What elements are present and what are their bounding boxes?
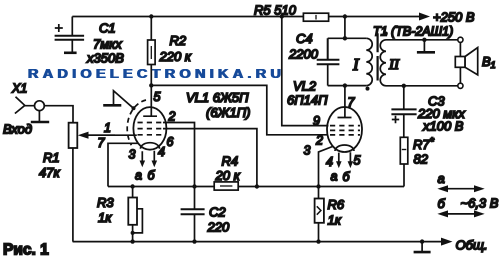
svg-text:х350В: х350В xyxy=(86,51,124,66)
tube VL2 heater pins 4,5 xyxy=(326,152,361,184)
svg-text:II: II xyxy=(388,57,400,73)
node VL1 anode xyxy=(149,83,153,87)
wire screen feed to VL2 pin 9 xyxy=(282,17,329,126)
wire VL1 pin 2 to cathode rail and C2 xyxy=(163,123,195,210)
speaker B1 xyxy=(455,37,495,88)
svg-text:I: I xyxy=(352,55,360,74)
svg-text:R7*: R7* xyxy=(413,136,435,152)
transformer T1 primary winding I xyxy=(328,17,373,91)
svg-text:5: 5 xyxy=(154,90,161,104)
svg-text:7: 7 xyxy=(98,136,106,150)
tube VL1 grids xyxy=(138,123,164,135)
node primary bottom xyxy=(343,83,347,87)
node VL2 cathode xyxy=(316,184,320,188)
svg-text:82: 82 xyxy=(414,152,429,167)
node R3 bottom xyxy=(130,239,134,243)
resistor R6 xyxy=(315,187,345,242)
node C3 top xyxy=(402,84,406,88)
svg-text:1: 1 xyxy=(104,121,111,135)
svg-text:а: а xyxy=(438,171,445,186)
svg-text:Рис. 1: Рис. 1 xyxy=(3,242,49,258)
node C2 bottom xyxy=(192,239,196,243)
chassis ground at secondary xyxy=(423,40,425,52)
svg-text:1к: 1к xyxy=(98,210,112,225)
svg-text:2200: 2200 xyxy=(288,47,319,62)
wire VL2 cathode pin 3 xyxy=(319,147,333,187)
svg-text:х100 В: х100 В xyxy=(422,119,464,134)
watermark radioelectronika.ru xyxy=(28,67,285,82)
svg-text:Вход: Вход xyxy=(3,122,32,137)
svg-text:б: б xyxy=(343,170,351,184)
svg-text:а: а xyxy=(135,169,142,183)
svg-text:Т1 (ТВ-2АШ1): Т1 (ТВ-2АШ1) xyxy=(373,25,453,39)
wire top supply rail right of R5 to +250V arrow xyxy=(329,16,420,18)
svg-text:С4: С4 xyxy=(296,31,313,46)
shield connection dot xyxy=(132,106,136,110)
chassis ground at X1 xyxy=(38,111,40,122)
svg-text:Общ.: Общ. xyxy=(456,238,488,253)
resistor R5 xyxy=(254,3,329,22)
svg-text:R2: R2 xyxy=(170,33,187,48)
svg-text:б: б xyxy=(438,196,446,211)
svg-text:6П14П: 6П14П xyxy=(287,93,328,108)
transformer T1 secondary winding II xyxy=(380,32,458,86)
svg-text:9: 9 xyxy=(313,114,320,128)
wire VL1 anode to VL2 grid xyxy=(151,85,328,134)
svg-text:(6Ж1П): (6Ж1П) xyxy=(206,105,250,120)
chassis ground at bottom rail xyxy=(421,242,423,252)
node R2 top xyxy=(149,14,153,18)
tube VL2 grids xyxy=(330,126,360,135)
svg-text:R3: R3 xyxy=(97,195,114,210)
svg-text:7мкх: 7мкх xyxy=(93,37,122,52)
node C2 top xyxy=(192,184,196,188)
node screen tap xyxy=(280,14,284,18)
arrow common xyxy=(441,238,453,246)
wire top supply rail left of R5 xyxy=(72,16,303,18)
svg-text:3: 3 xyxy=(129,148,136,162)
svg-text:3: 3 xyxy=(304,144,311,158)
svg-text:R5 510: R5 510 xyxy=(254,3,297,18)
svg-text:~6,3 В: ~6,3 В xyxy=(461,196,499,211)
svg-text:220 к: 220 к xyxy=(159,49,192,64)
svg-text:220: 220 xyxy=(207,220,230,235)
resistor R2 xyxy=(148,17,192,86)
svg-text:VL2: VL2 xyxy=(293,79,317,94)
wire X1 to R1 xyxy=(44,106,73,123)
capacitor C1 xyxy=(55,17,125,66)
tube VL1 cathode xyxy=(141,143,160,149)
tube VL1 envelope xyxy=(133,107,166,150)
svg-text:5: 5 xyxy=(354,154,361,168)
tube VL1 heater pins 3,4 xyxy=(129,145,166,183)
node R3 top xyxy=(130,184,134,188)
svg-text:4: 4 xyxy=(326,155,333,169)
node chassis bottom xyxy=(420,239,424,243)
capacitor C3 xyxy=(391,86,465,138)
svg-text:2: 2 xyxy=(168,110,176,124)
svg-text:7: 7 xyxy=(348,96,356,110)
node primary top xyxy=(343,36,347,40)
shield to chassis xyxy=(114,91,134,109)
tube VL2 cathode xyxy=(335,145,354,151)
node R6 bottom xyxy=(316,239,320,243)
node transformer supply xyxy=(343,14,347,18)
resistor R4 xyxy=(214,154,240,191)
svg-text:В1: В1 xyxy=(482,54,496,70)
wire VL1 grid pin 1 xyxy=(88,134,137,136)
svg-text:47к: 47к xyxy=(39,165,60,180)
bottom common rail xyxy=(73,241,442,243)
cathode rail right xyxy=(238,186,404,188)
arrow +250V xyxy=(419,13,430,21)
svg-text:С2: С2 xyxy=(209,205,226,220)
cathode rail left xyxy=(108,186,214,188)
wire speaker xyxy=(459,42,461,83)
node VL1 screen to rail xyxy=(255,184,259,188)
svg-text:20 к: 20 к xyxy=(215,168,241,183)
svg-text:2: 2 xyxy=(315,134,323,148)
capacitor C2 xyxy=(181,205,230,242)
chassis ground at VL1 shield xyxy=(103,104,121,107)
wire VL1 cathode pin 7 xyxy=(108,143,138,186)
svg-text:VL1 6Ж5П: VL1 6Ж5П xyxy=(186,90,249,105)
svg-text:R4: R4 xyxy=(222,154,239,169)
resistor R3 xyxy=(97,187,142,242)
svg-text:С1: С1 xyxy=(99,21,116,36)
capacitor C4 xyxy=(288,31,339,86)
tube VL1 anode xyxy=(143,85,157,116)
svg-text:R1: R1 xyxy=(43,150,60,165)
svg-text:а: а xyxy=(331,170,338,184)
tube VL2 anode pin 7 xyxy=(338,86,352,118)
svg-text:1к: 1к xyxy=(328,213,342,228)
transformer T1 core xyxy=(377,33,379,80)
potentiometer R1 xyxy=(39,123,115,242)
svg-text:4: 4 xyxy=(158,145,165,159)
connector X1 xyxy=(11,82,44,114)
node secondary ground xyxy=(422,38,426,42)
resistor R7 xyxy=(400,136,434,187)
tube VL2 envelope xyxy=(327,107,362,152)
wire VL1 pin 6 feedback xyxy=(163,129,257,187)
svg-text:6: 6 xyxy=(167,135,174,149)
svg-text:R6: R6 xyxy=(328,197,345,212)
svg-text:Х1: Х1 xyxy=(11,82,27,96)
svg-text:б: б xyxy=(148,169,156,183)
svg-text:+250 В: +250 В xyxy=(433,10,475,25)
shield arc of VL1 xyxy=(127,100,146,145)
